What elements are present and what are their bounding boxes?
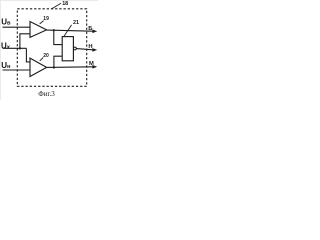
svg-text:М: М — [89, 61, 94, 67]
leader 21 — [64, 25, 72, 36]
scan edge top — [0, 0, 98, 1]
junction dot comp20 output — [53, 66, 55, 68]
scan edge left — [0, 0, 1, 100]
wire Ux input — [3, 47, 27, 49]
junction dot comp19 output — [53, 29, 55, 31]
svg-text:Н: Н — [88, 44, 92, 50]
svg-text:18: 18 — [62, 1, 68, 7]
dashed box 18 — [17, 9, 86, 87]
svg-text:21: 21 — [73, 20, 79, 26]
wire node A vertical to comp19 lower input — [20, 34, 30, 49]
leader 20 — [40, 58, 44, 61]
arrowhead N — [92, 48, 97, 52]
arrowhead B — [92, 30, 97, 34]
svg-text:Фиг.3: Фиг.3 — [38, 90, 55, 98]
wire comp19 to block 21 upper input — [54, 30, 62, 44]
svg-text:19: 19 — [43, 16, 49, 22]
junction dot node A — [19, 47, 21, 49]
wire B output — [47, 30, 93, 31]
leader 19 — [40, 21, 44, 24]
svg-text:Б: Б — [88, 26, 92, 32]
wire to comp20 upper input — [26, 48, 30, 62]
wire comp20 to block 21 lower input — [54, 56, 62, 67]
wire N output — [76, 49, 93, 50]
arrowhead M — [92, 65, 97, 69]
inversion bubble U21 output — [74, 47, 77, 50]
wire M output — [47, 66, 93, 69]
leader 18 — [52, 3, 61, 9]
logic block 21 — [62, 37, 73, 61]
svg-text:20: 20 — [43, 53, 49, 59]
wire Un input — [3, 69, 31, 71]
wire Uv input — [3, 26, 31, 28]
comparator 19 — [30, 22, 47, 38]
comparator 20 — [30, 58, 47, 76]
